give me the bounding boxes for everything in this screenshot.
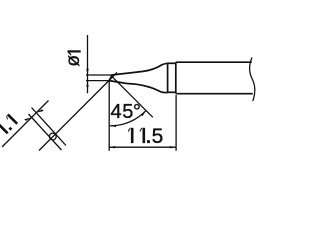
1.1 arrow upper: [36, 109, 43, 112]
dia dimension line vertical: [87, 35, 89, 93]
1.1 arrow lower: [24, 117, 31, 121]
body top: [176, 61, 252, 63]
arc arrow left: [110, 125, 117, 127]
svg-text:5: 5: [152, 125, 164, 148]
body bottom: [176, 93, 253, 95]
1.1 dimension line D2: [2, 101, 49, 148]
dia ext line top: [86, 74, 112, 76]
diagonal D1 through face circle: [39, 73, 117, 151]
label 11.5: [128, 128, 150, 143]
tip top outline: [112, 63, 168, 75]
collar left edge: [167, 63, 169, 93]
face circle: [49, 133, 56, 140]
dia ext line bottom: [86, 80, 109, 82]
11.5 arrow left: [109, 146, 115, 148]
angle arc: [110, 111, 146, 126]
collar top: [168, 62, 176, 64]
svg-text:45°: 45°: [111, 101, 141, 123]
45 deg bevel line: [111, 75, 153, 117]
body left edge: [175, 62, 177, 93]
break line: [250, 58, 255, 102]
11.5 arrow right: [170, 146, 176, 148]
tip bottom outline: [109, 81, 168, 93]
tangent line A: [32, 108, 67, 146]
right ext line for 11.5: [175, 95, 177, 151]
collar bottom: [168, 91, 176, 93]
11.5 dimension line: [109, 146, 176, 148]
tangent line B: [29, 114, 62, 150]
tip cut face: [109, 75, 112, 81]
arc arrow right: [141, 111, 146, 117]
left ext line for 11.5: [108, 81, 110, 151]
svg-text:ø: ø: [63, 55, 84, 67]
dia arrow down: [86, 69, 88, 75]
dia arrow up: [86, 81, 88, 87]
label 1.1: [0, 114, 18, 136]
